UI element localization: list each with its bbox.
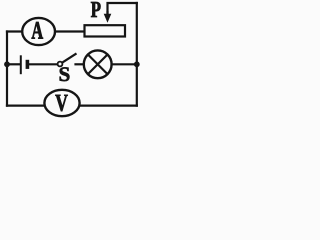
wire ammeter to rheostat (55, 30, 85, 32)
lamp L1 (84, 50, 112, 78)
wire battery to switch (29, 63, 58, 65)
wire lamp to right vertical (112, 63, 137, 65)
wire top-left to ammeter (7, 30, 22, 32)
voltmeter V1 (44, 90, 79, 116)
battery B1 (21, 55, 28, 74)
wire battery node to battery (7, 63, 20, 65)
label P (91, 2, 101, 17)
rheostat R1 (85, 25, 126, 36)
wire left vertical (6, 32, 8, 106)
wire right vertical (136, 3, 138, 106)
wire wiper feed (top-right) (108, 3, 137, 13)
wire bottom-left to voltmeter (7, 104, 45, 106)
ammeter A1 (22, 18, 55, 45)
node right junction (134, 61, 140, 67)
switch S (58, 53, 77, 66)
label S (60, 67, 70, 81)
wire voltmeter to bottom-right (79, 104, 136, 106)
wire switch to lamp (76, 63, 84, 65)
rheostat wiper arrow (104, 11, 112, 23)
node left junction (4, 61, 10, 67)
